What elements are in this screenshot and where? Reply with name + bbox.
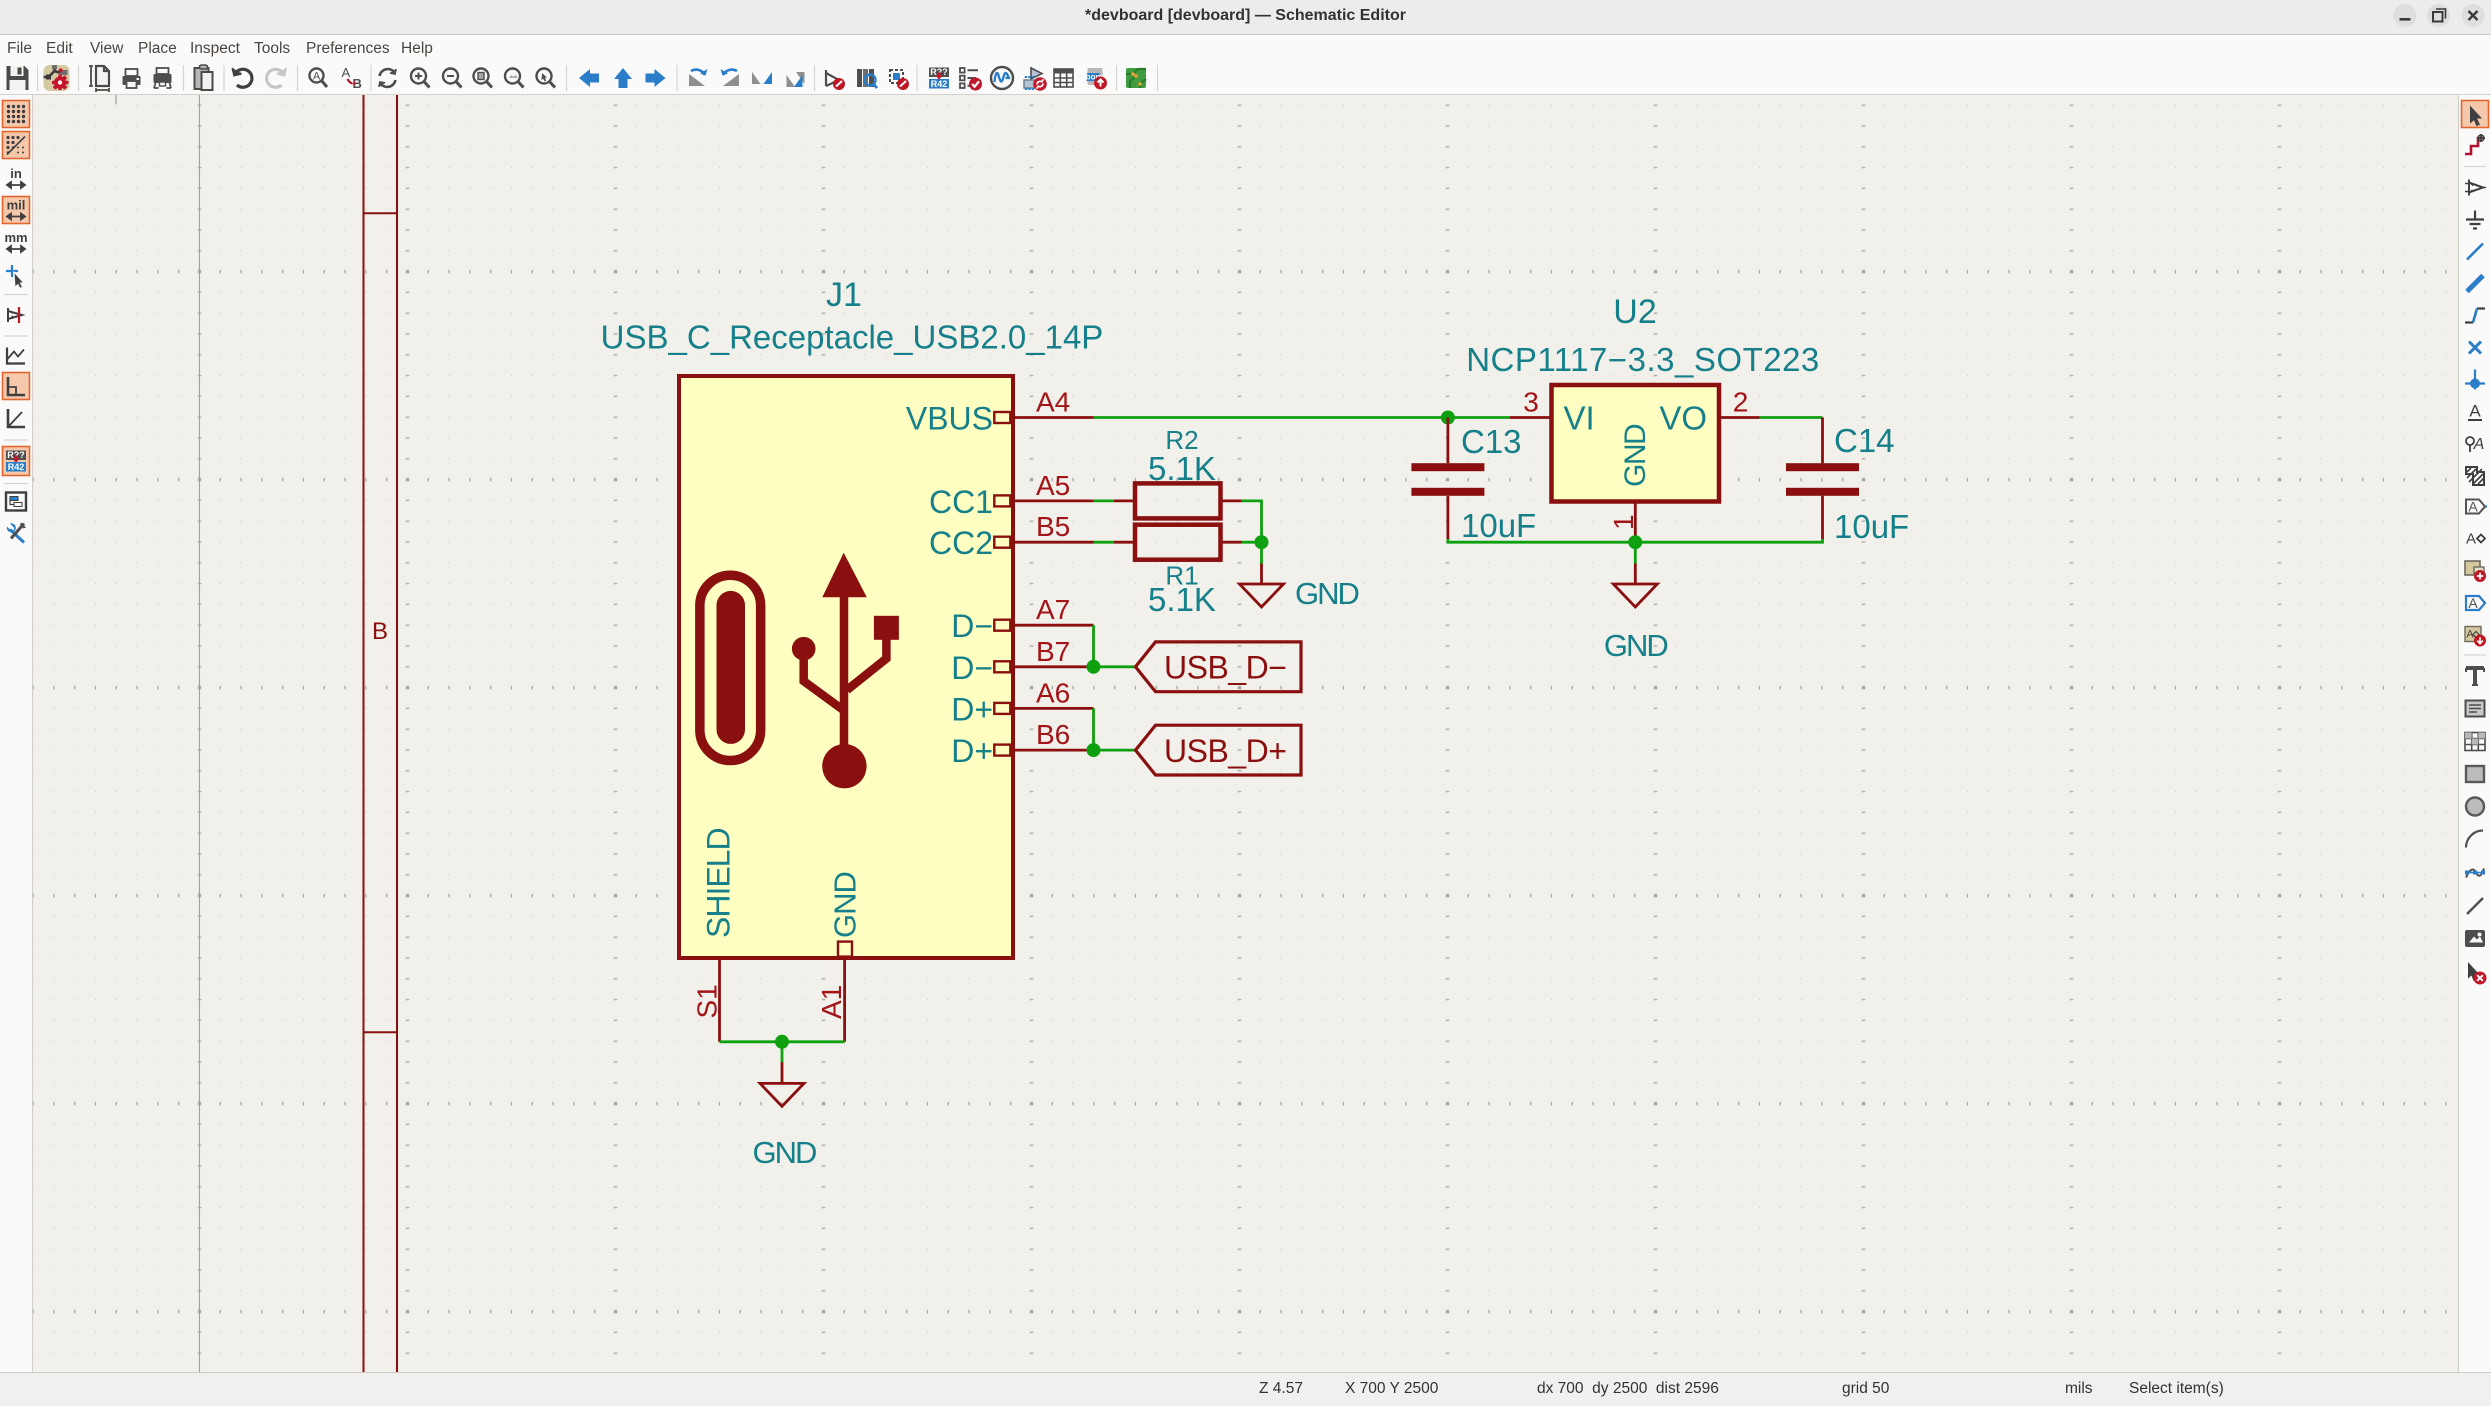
J1 pin B7 (D-): [951, 650, 1093, 686]
svg-text:VBUS: VBUS: [906, 401, 993, 437]
svg-text:D−: D−: [951, 650, 993, 686]
junction right of R1: [1255, 535, 1269, 549]
svg-text:B6: B6: [1036, 719, 1070, 750]
J1 pin number S1: [692, 984, 723, 1018]
resistor R2: [1114, 483, 1242, 518]
svg-text:GND: GND: [1295, 576, 1359, 611]
svg-text:10uF: 10uF: [1834, 508, 1909, 545]
svg-text:S1: S1: [692, 984, 723, 1018]
status bar: [0, 1372, 2491, 1405]
global label USB_D-: [1136, 642, 1302, 692]
svg-text:A7: A7: [1036, 594, 1070, 625]
right toolbar: [2458, 95, 2491, 1372]
svg-text:mm: mm: [4, 230, 27, 245]
svg-text:A4: A4: [1036, 387, 1070, 418]
wire U2 VO to C14: [1760, 416, 1823, 419]
svg-text:mil: mil: [7, 198, 26, 213]
svg-text:B7: B7: [1036, 636, 1070, 667]
U2 pin 1 (GND): [1619, 424, 1652, 542]
svg-text:A: A: [2469, 402, 2481, 421]
svg-text:GND: GND: [1604, 628, 1668, 663]
svg-text:A5: A5: [1036, 470, 1070, 501]
J1 pin number B7: [1036, 636, 1070, 667]
junction at U2 pin1 / GND rail: [1628, 535, 1642, 549]
wire VBUS: J1 A4 to U2 VI: [1094, 416, 1510, 419]
svg-text:GND: GND: [1619, 424, 1652, 487]
power symbol GND (U2): [1604, 542, 1668, 663]
J1 pin number A4: [1036, 387, 1070, 418]
J1 pin A5 (CC1): [929, 484, 1094, 520]
connector J1 body: [679, 376, 1013, 958]
resistor R1: [1114, 525, 1242, 560]
wire R2 right to junction: [1242, 501, 1262, 542]
svg-text:A: A: [342, 65, 351, 80]
global label USB_D+: [1136, 725, 1302, 775]
svg-text:B: B: [372, 618, 388, 645]
svg-text:R42: R42: [931, 79, 948, 89]
svg-text:GND: GND: [753, 1135, 817, 1170]
U2 pin number 1: [1608, 514, 1639, 530]
svg-text:10uF: 10uF: [1461, 507, 1536, 544]
svg-text:A: A: [2468, 499, 2478, 515]
R1 reference label: [1165, 561, 1198, 591]
left toolbar: [0, 95, 33, 1372]
wire B6 to USB_D+ label: [1094, 749, 1136, 752]
svg-text:C13: C13: [1461, 423, 1522, 460]
svg-text:GND: GND: [828, 872, 863, 938]
svg-text:A: A: [2468, 595, 2478, 611]
svg-text:A: A: [2466, 531, 2476, 548]
wire CC2 to R1: [1094, 541, 1115, 544]
C13 reference label: [1461, 423, 1522, 460]
power symbol GND (resistors): [1240, 542, 1359, 611]
U2 pin 3 (VI): [1510, 400, 1595, 437]
junction at C13 top / VBUS: [1441, 411, 1455, 425]
svg-text:USB_C_Receptacle_USB2.0_14P: USB_C_Receptacle_USB2.0_14P: [601, 319, 1104, 356]
svg-text:D−: D−: [951, 608, 993, 644]
svg-text:NCP1117−3.3_SOT223: NCP1117−3.3_SOT223: [1466, 341, 1820, 378]
svg-text:VO: VO: [1659, 400, 1707, 437]
svg-text:A1: A1: [816, 985, 847, 1019]
U2 pin 2 (VO): [1659, 400, 1759, 437]
wire J1 S1/A1 to GND: [720, 1040, 845, 1043]
U2 pin number 2: [1733, 387, 1749, 418]
svg-text:VI: VI: [1564, 400, 1595, 437]
J1 pin S1 (SHIELD): [701, 828, 737, 1041]
svg-text:2: 2: [1733, 387, 1749, 418]
capacitor C14: [1786, 418, 1859, 540]
svg-text:D+: D+: [951, 691, 993, 727]
J1 pin number A6: [1036, 677, 1070, 708]
svg-text:C14: C14: [1834, 422, 1895, 459]
junction at D- B7: [1087, 660, 1101, 674]
svg-text:1: 1: [1608, 514, 1639, 530]
J1 pin A6 (D+): [951, 691, 1093, 727]
C14 value 10uF: [1834, 508, 1909, 545]
U2 value NCP1117-3.3_SOT223: [1466, 341, 1820, 378]
J1 pin A4 (VBUS): [906, 401, 1094, 437]
svg-text:USB_D+: USB_D+: [1164, 733, 1286, 769]
svg-text:B5: B5: [1036, 511, 1070, 542]
wire D- A7 to B7: [1092, 625, 1095, 667]
svg-text:A6: A6: [1036, 677, 1070, 708]
J1 value label USB_C_Receptacle_USB2.0_14P: [601, 319, 1104, 356]
R2 reference label: [1165, 425, 1198, 455]
J1 pin number B6: [1036, 719, 1070, 750]
J1 USB-C connector icon: [700, 575, 761, 760]
svg-text:J1: J1: [826, 276, 862, 314]
top toolbar: [0, 62, 2491, 95]
wire R1 right to junction: [1242, 541, 1262, 544]
window title bar: [0, 0, 2491, 34]
J1 pin A7 (D-): [951, 608, 1093, 644]
svg-text:R42: R42: [8, 462, 25, 472]
R2 value 5.1K: [1148, 450, 1216, 487]
C14 reference label: [1834, 422, 1895, 459]
svg-text:5.1K: 5.1K: [1148, 450, 1216, 487]
J1 pin A1 (GND): [828, 872, 863, 1042]
menu bar: [0, 34, 2491, 62]
wire GND rail C13 to C14: [1448, 539, 1823, 542]
junction at D+ B6: [1087, 743, 1101, 757]
J1 pin B6 (D+): [951, 733, 1093, 769]
regulator U2 body: [1552, 385, 1720, 502]
U2 reference label: [1613, 293, 1656, 331]
R1 value 5.1K: [1148, 581, 1216, 618]
svg-text:A: A: [313, 71, 321, 83]
wire B7 to USB_D- label: [1094, 665, 1136, 668]
svg-text:CC1: CC1: [929, 484, 993, 520]
capacitor C13: [1411, 418, 1484, 540]
svg-text:A: A: [2473, 436, 2485, 453]
svg-text:5.1K: 5.1K: [1148, 581, 1216, 618]
J1 pin number A1: [816, 985, 847, 1019]
svg-text:U2: U2: [1613, 293, 1656, 331]
J1 pin number B5: [1036, 511, 1070, 542]
junction below J1: [775, 1035, 789, 1049]
wire CC1 to R2: [1094, 499, 1115, 502]
power symbol GND (J1): [753, 1042, 817, 1170]
wire D+ A6 to B6: [1092, 708, 1095, 750]
U2 pin number 3: [1523, 387, 1539, 418]
svg-text:USB_D−: USB_D−: [1164, 650, 1286, 686]
J1 USB trident icon: [792, 553, 899, 789]
J1 pin B5 (CC2): [929, 525, 1094, 561]
C13 value 10uF: [1461, 507, 1536, 544]
J1 reference label: [826, 276, 862, 314]
J1 pin number A5: [1036, 470, 1070, 501]
svg-text:CC2: CC2: [929, 525, 993, 561]
svg-text:in: in: [10, 166, 22, 181]
J1 pin number A7: [1036, 594, 1070, 625]
svg-text:3: 3: [1523, 387, 1539, 418]
svg-text:SHIELD: SHIELD: [701, 828, 737, 938]
svg-text:D+: D+: [951, 733, 993, 769]
